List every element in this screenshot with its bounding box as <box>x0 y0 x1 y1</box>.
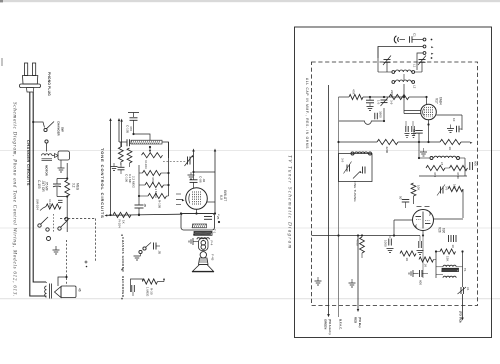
T1 left wires <box>435 252 437 279</box>
grid resistor 47K <box>339 96 350 98</box>
osc coil L5 <box>418 142 420 158</box>
svg-text:L5: L5 <box>440 162 444 166</box>
svg-text:3-9: 3-9 <box>390 100 394 105</box>
grid chain wire <box>138 134 140 141</box>
antenna coil L1 <box>392 71 395 74</box>
top page edge strip (decorative) <box>0 0 500 2</box>
TV tuner outer border <box>295 27 492 338</box>
svg-text:SW-104: SW-104 <box>36 199 40 210</box>
grid capacitor C-98 <box>193 172 195 180</box>
V26 bottom <box>422 231 424 236</box>
svg-text:V26: V26 <box>438 227 442 233</box>
svg-text:.05: .05 <box>158 250 162 255</box>
svg-text:R-108: R-108 <box>158 200 162 209</box>
coupling capacitor <box>135 204 144 206</box>
cathode circuit wire <box>196 209 198 213</box>
svg-text:5000: 5000 <box>412 129 416 136</box>
antenna wires <box>378 47 423 59</box>
coil link wires <box>403 74 405 80</box>
svg-text:CHASSIS GROUND: CHASSIS GROUND <box>121 237 125 272</box>
bypass capacitor 25 <box>204 216 212 218</box>
ground at V-9 grid <box>190 172 192 175</box>
wire pot to plate loop <box>162 142 169 158</box>
svg-text:RED: RED <box>354 317 358 323</box>
resistor 2200 <box>377 139 398 144</box>
svg-text:2.2 MEG: 2.2 MEG <box>132 176 136 189</box>
svg-text:MEG: MEG <box>75 183 79 191</box>
ground near switch <box>55 246 57 250</box>
svg-text:6J6: 6J6 <box>441 228 445 233</box>
trimmer capacitor with arrow <box>187 157 189 165</box>
wire top of RC pair <box>57 178 67 180</box>
resistor vert mid <box>118 147 123 162</box>
svg-text:RECORDER: RECORDER <box>121 276 125 298</box>
svg-text:R-103: R-103 <box>144 161 148 170</box>
svg-text:470K: 470K <box>151 177 155 184</box>
svg-text:25: 25 <box>216 216 220 220</box>
V26 top pin ticks <box>417 206 422 208</box>
ground <box>111 166 118 168</box>
V-9 plate link <box>207 201 215 203</box>
gang dashed link <box>163 161 186 163</box>
caps 10 upper right <box>448 235 450 242</box>
resistor 100 <box>448 186 463 191</box>
V-9 input arrow <box>176 199 183 201</box>
wire switch to relay coil <box>46 143 48 151</box>
polarity marks <box>85 261 88 263</box>
speaker (changer) <box>55 287 62 298</box>
riser to V-9 plate <box>214 149 217 152</box>
svg-text:P-4: P-4 <box>210 241 214 246</box>
trimmer capacitor left <box>384 59 391 61</box>
resistor 1K lower <box>400 251 416 256</box>
RF coil box <box>339 154 373 182</box>
trimmer capacitor right <box>419 59 426 61</box>
phono plug <box>25 63 28 76</box>
cathode resistor 250 (hatched) <box>193 224 207 228</box>
capacitor C-106 <box>120 163 122 167</box>
shield dashed boundary <box>60 218 96 220</box>
antenna coil L2 <box>392 81 395 84</box>
mixer bus <box>339 141 378 143</box>
svg-text:PLUG: PLUG <box>47 86 51 96</box>
svg-text:FINE TUNING: FINE TUNING <box>353 181 357 202</box>
svg-text:1-5: 1-5 <box>377 100 381 105</box>
svg-text:6AB4: 6AB4 <box>438 97 442 105</box>
wire <box>119 141 127 143</box>
svg-text:(TO A.G.C.): (TO A.G.C.) <box>328 319 332 334</box>
svg-text:C-105: C-105 <box>126 125 130 134</box>
svg-text:2200: 2200 <box>385 147 389 154</box>
svg-text:3-9: 3-9 <box>341 158 345 163</box>
svg-text:.02: .02 <box>202 178 206 183</box>
svg-text:Schematic Diagram, Phono and T: Schematic Diagram, Phono and Tone Contro… <box>12 102 17 297</box>
resistor R-107 <box>139 184 145 186</box>
radio-phono selector switch <box>38 224 41 227</box>
transformer T1 core <box>442 268 459 271</box>
resistor R-104 <box>113 212 131 217</box>
svg-text:46: 46 <box>78 288 82 292</box>
exit wire green <box>327 314 330 317</box>
osc trimmer <box>440 187 442 194</box>
antenna terminals <box>412 39 423 41</box>
relay coil 600 <box>42 154 53 156</box>
svg-text:1K: 1K <box>122 220 126 224</box>
caps at V17 cathode <box>405 126 407 132</box>
output transformer winding <box>197 238 209 240</box>
svg-text:PHONO: PHONO <box>47 72 51 85</box>
svg-text:3900: 3900 <box>379 111 383 118</box>
V17 plate wire <box>436 114 462 116</box>
svg-text:470: 470 <box>129 126 133 131</box>
svg-text:600: 600 <box>419 280 423 285</box>
lower bus <box>312 235 421 237</box>
volume control potentiometer <box>142 153 163 158</box>
svg-text:600: 600 <box>474 161 478 166</box>
capacitor above R-102 <box>58 199 63 201</box>
tube V26 <box>413 210 434 231</box>
cathode network box <box>181 214 215 231</box>
node arrow <box>163 280 165 282</box>
ground below motor <box>60 160 62 168</box>
resistor R-30 1MEG <box>143 279 158 284</box>
svg-text:C1: C1 <box>413 33 417 37</box>
svg-text:4700: 4700 <box>456 172 460 179</box>
cap 5000 <box>415 130 423 132</box>
RF coil L3 <box>351 152 354 155</box>
svg-text:ALL CAP IN MMF., RES. IN OHMS: ALL CAP IN MMF., RES. IN OHMS <box>305 78 309 149</box>
phono shielded cable wire (left conductor) <box>30 92 44 296</box>
svg-text:.05 MF: .05 MF <box>45 181 49 191</box>
cap 1000 lower <box>389 236 391 239</box>
changer switch SW contacts <box>44 128 47 131</box>
ground at jack <box>193 241 199 243</box>
capacitor into tone pot <box>126 139 128 146</box>
svg-text:T1: T1 <box>463 268 467 272</box>
ground bottom left <box>317 277 319 281</box>
svg-text:10K: 10K <box>417 185 421 190</box>
riser to V-9 grid cap <box>192 149 195 152</box>
wire shield to speaker <box>58 277 67 286</box>
tuner shield dashed box <box>312 62 478 306</box>
B+ rail left <box>328 85 330 315</box>
svg-text:GREEN: GREEN <box>324 319 328 329</box>
resistor vert left <box>127 148 132 163</box>
capacitor C-104 <box>153 243 155 250</box>
fine tuning trimmer <box>353 172 360 179</box>
resistor 4700 <box>450 165 468 170</box>
resistor R-106 <box>139 172 143 174</box>
plate resistor 10K <box>411 183 416 196</box>
T1 right wires <box>457 266 463 268</box>
wire to tone pot wiper <box>134 134 151 140</box>
plate loop vertical <box>168 142 170 196</box>
svg-text:B.F.A.C.: B.F.A.C. <box>339 319 343 330</box>
svg-text:.047 OR: .047 OR <box>41 180 45 192</box>
capacitor to ground C-105 <box>128 112 139 114</box>
svg-text:470: 470 <box>433 172 437 177</box>
V17 left pins <box>403 97 405 114</box>
svg-text:2200: 2200 <box>390 90 394 97</box>
phono shielded cable wire (right conductor) <box>33 92 46 282</box>
shield dashed wire <box>66 240 68 286</box>
audio bus wire <box>105 214 108 216</box>
RF trimmer in box <box>346 165 348 172</box>
wire <box>194 171 216 173</box>
RC network wire <box>131 279 143 292</box>
crystal diode <box>460 287 462 294</box>
resistor 4700 lower <box>360 237 365 253</box>
cap 600 right <box>469 162 471 170</box>
wire bottom of RC pair <box>57 196 67 198</box>
antenna symbol <box>394 36 396 43</box>
cap+ground right of V17 <box>447 128 454 130</box>
svg-text:TV Tuner Schematic Diagram: TV Tuner Schematic Diagram <box>287 155 293 250</box>
svg-text:47K: 47K <box>352 89 356 94</box>
capacitor C-103 <box>56 179 58 184</box>
V26 right wire <box>433 218 463 220</box>
svg-text:.05: .05 <box>143 203 147 208</box>
bypass cap to ground <box>369 97 371 100</box>
cap 3900 <box>374 113 376 120</box>
svg-text:R-104: R-104 <box>118 220 122 229</box>
tone control potentiometer (hatched) <box>131 140 162 144</box>
svg-text:X1: X1 <box>466 287 470 291</box>
resistor 1K <box>440 139 461 144</box>
tube V-9 <box>186 188 208 210</box>
RF cap in box <box>362 167 364 174</box>
motor <box>58 151 70 160</box>
wire to V17 <box>425 96 427 98</box>
cap 50 <box>402 199 410 201</box>
transformer T1 secondary <box>443 276 456 278</box>
svg-text:1K: 1K <box>405 258 409 262</box>
capacitor C-31 <box>131 285 133 292</box>
svg-text:1000: 1000 <box>384 240 388 247</box>
svg-text:(TO VID): (TO VID) <box>459 311 463 323</box>
grid wire with hop <box>339 121 381 124</box>
svg-text:C-103: C-103 <box>37 180 41 189</box>
junction marks <box>218 221 220 223</box>
gnd cap row right <box>420 151 427 153</box>
B+ rail red <box>357 236 359 310</box>
svg-text:15K: 15K <box>446 256 450 261</box>
resistor 3.2 MEG <box>65 180 70 196</box>
svg-text:MOTOR: MOTOR <box>45 165 49 177</box>
svg-text:10: 10 <box>451 245 455 249</box>
wire row <box>419 175 467 177</box>
svg-text:T-1: T-1 <box>213 229 217 234</box>
svg-text:10: 10 <box>452 118 456 122</box>
svg-text:R-102: R-102 <box>48 200 52 209</box>
cap gnd mid <box>419 236 421 242</box>
svg-text:1 MEG: 1 MEG <box>154 189 158 199</box>
V17 cathode <box>428 120 430 142</box>
svg-text:50: 50 <box>399 196 403 200</box>
svg-text:1K: 1K <box>448 147 452 151</box>
speaker cone <box>193 265 214 272</box>
svg-text:6V6-GT: 6V6-GT <box>223 190 227 201</box>
antenna capacitor C1 <box>409 36 411 43</box>
ground at phono jack <box>140 254 142 256</box>
terminal <box>47 237 51 241</box>
speaker plug <box>200 252 206 258</box>
AGC rail <box>338 97 340 317</box>
resistor 15K <box>440 249 456 254</box>
video out wire <box>462 294 464 318</box>
feed wire pair with arrows <box>118 118 121 121</box>
resistor 470 <box>426 165 445 170</box>
svg-text:SW: SW <box>61 127 65 132</box>
cap 600 bottom <box>412 270 414 277</box>
junction node on phono cable <box>32 121 34 123</box>
B+ feed wire with arrow <box>109 118 112 121</box>
node <box>132 133 134 135</box>
svg-text:C-106: C-106 <box>125 174 129 183</box>
wire to changer switch <box>33 122 44 128</box>
grid bus wire <box>138 134 140 203</box>
resistor R-108 <box>139 195 148 197</box>
svg-text:R-30: R-30 <box>150 288 154 295</box>
tube V17 <box>421 104 437 120</box>
resistor R-102 <box>46 204 61 209</box>
grid bus <box>138 165 140 205</box>
svg-text:1K: 1K <box>424 264 428 268</box>
svg-text:CHANGER: CHANGER <box>57 121 61 137</box>
output transformer T-1 core <box>194 232 212 236</box>
svg-text:(TO B+): (TO B+) <box>358 317 362 328</box>
svg-text:1 MEG: 1 MEG <box>146 287 150 297</box>
phono jack switch <box>139 250 142 253</box>
svg-text:TONE CONTROL CIRCUITS: TONE CONTROL CIRCUITS <box>100 148 105 219</box>
output transformer (changer) <box>45 286 47 297</box>
trimmer cap 1-5 <box>381 99 388 101</box>
V26 left wire <box>394 219 413 221</box>
svg-text:L1: L1 <box>413 64 417 68</box>
transformer T1 primary <box>443 265 456 267</box>
svg-text:V17: V17 <box>435 98 439 104</box>
resistor 1K bottom <box>419 257 433 262</box>
svg-text:L2: L2 <box>413 85 417 89</box>
svg-text:V-9: V-9 <box>219 195 223 200</box>
jack P-4 <box>199 239 209 251</box>
plate resistor 3900 <box>389 94 409 99</box>
svg-text:0.1 MF: 0.1 MF <box>128 174 132 184</box>
changer bus wire <box>66 163 68 180</box>
svg-text:4700: 4700 <box>356 239 360 246</box>
svg-text:F-45: F-45 <box>211 254 215 261</box>
svg-text:3.2: 3.2 <box>72 183 76 188</box>
svg-text:100: 100 <box>453 184 457 189</box>
